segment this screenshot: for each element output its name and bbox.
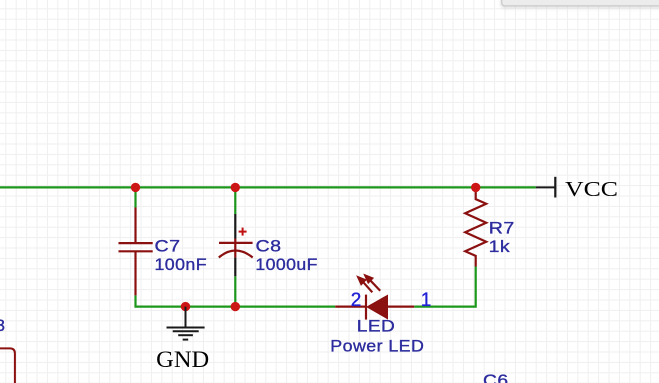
junction dot top C7 — [131, 183, 140, 192]
capacitor C7 — [119, 208, 153, 296]
svg-text:100nF: 100nF — [155, 255, 208, 274]
wire C7 top stub — [134, 187, 136, 207]
LED right pin — [388, 306, 415, 308]
junction dot GND — [181, 302, 190, 311]
svg-text:GND: GND — [156, 347, 209, 372]
junction dot C8 bottom — [231, 302, 240, 311]
wire C8 top stub — [234, 187, 236, 214]
svg-text:Power LED: Power LED — [330, 337, 424, 356]
junction dot top R7 — [471, 183, 480, 192]
LED cathode bar — [365, 295, 367, 320]
svg-text:VCC: VCC — [565, 177, 618, 201]
toolbar corner panel top-right — [501, 0, 659, 8]
LED triangle — [367, 295, 388, 318]
plus sign C8 polarity — [239, 228, 247, 236]
svg-text:1: 1 — [421, 290, 432, 311]
svg-text:C6: C6 — [483, 371, 509, 383]
wire C8 bottom stub — [234, 276, 236, 307]
ground symbol — [167, 307, 205, 340]
VCC power symbol — [536, 177, 556, 198]
junction dot top C8 — [231, 183, 240, 192]
svg-text:1000uF: 1000uF — [255, 255, 318, 274]
resistor R7 — [465, 187, 486, 266]
LED emission arrow 2 — [364, 275, 380, 291]
svg-text:3: 3 — [0, 316, 5, 335]
wire bottom rail — [136, 295, 336, 306]
LED emission arrow 1 — [357, 276, 372, 292]
svg-text:C7: C7 — [155, 236, 181, 255]
wire VCC top rail — [0, 186, 536, 188]
component body outline bottom-left (partial rounded box) — [0, 348, 15, 383]
svg-text:C8: C8 — [256, 236, 282, 255]
LED D? left pin — [335, 306, 366, 308]
capacitor C8 — [219, 214, 253, 276]
svg-text:R7: R7 — [489, 219, 515, 238]
svg-text:2: 2 — [351, 290, 362, 311]
svg-text:1k: 1k — [489, 237, 511, 256]
wire LED to R7 corner — [414, 267, 476, 307]
svg-text:LED: LED — [357, 317, 396, 336]
